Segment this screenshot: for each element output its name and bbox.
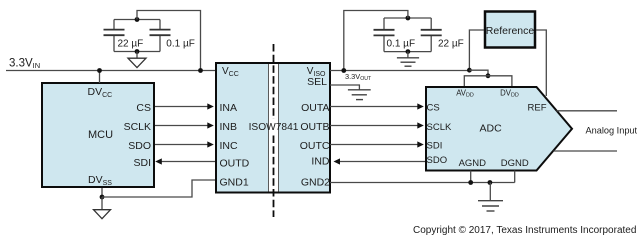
node junction VISO rail-caps [341, 68, 346, 73]
wire DVCC drop [99, 71, 101, 84]
node C1-C2 top junction [135, 17, 140, 22]
capacitor C1 22uF left leads [104, 20, 125, 52]
svg-text:Analog Input: Analog Input [586, 126, 638, 136]
svg-text:22 µF: 22 µF [438, 39, 464, 50]
wire MCU gnd lead [101, 197, 103, 210]
node junction ADC supply [486, 73, 491, 78]
wire right caps gnd lead [407, 52, 409, 58]
svg-text:SDO: SDO [427, 155, 448, 166]
node junction rail-caps [198, 68, 203, 73]
ground earth ADC [478, 201, 503, 211]
svg-text:INB: INB [220, 121, 238, 133]
node C3-C4 top junction [406, 16, 411, 21]
svg-text:SCLK: SCLK [427, 122, 452, 133]
wire VISO rail [330, 70, 469, 72]
Reference block [485, 12, 535, 48]
svg-text:SEL: SEL [307, 76, 327, 88]
ADC block [426, 87, 572, 171]
svg-text:Reference: Reference [486, 25, 535, 37]
svg-text:OUTC: OUTC [300, 140, 330, 152]
wire caps gnd lead [136, 52, 138, 59]
svg-text:OUTD: OUTD [220, 157, 250, 169]
node C3-C4 bottom junction [406, 49, 411, 54]
wire analog input top [557, 110, 618, 112]
wire right caps to VISO rail [344, 11, 408, 71]
wire ADC SDO to ISOW IND [338, 161, 425, 163]
wire MCU SCLK to ISOW INB [155, 125, 209, 127]
svg-text:ADC: ADC [480, 123, 503, 135]
svg-text:SDI: SDI [133, 157, 151, 169]
wire C1-C2 top connect [114, 19, 160, 21]
svg-text:DGND: DGND [501, 158, 529, 169]
svg-text:ISOW7841: ISOW7841 [249, 122, 299, 133]
svg-text:OUTA: OUTA [301, 102, 329, 114]
capacitor C4 22uF right leads [421, 18, 442, 52]
wire ADC AGND lead [470, 171, 472, 183]
node DVSS junction [100, 195, 105, 200]
wire SEL to gnd [330, 85, 359, 90]
node C1-C2 bottom junction [135, 49, 140, 54]
capacitor C2 0.1uF left leads [150, 20, 171, 52]
wire MCU DVSS lead [101, 188, 103, 197]
wire MCU SDO to ISOW INC [155, 144, 209, 146]
wire Reference left to VISO rail [469, 30, 484, 70]
wire C3-C4 top connect [384, 17, 431, 19]
svg-text:0.1 µF: 0.1 µF [387, 39, 416, 50]
wire ISOW OUTB to ADC SCLK [330, 125, 419, 127]
svg-text:SCLK: SCLK [124, 121, 151, 133]
wire GND2 to ADC grounds [330, 182, 515, 184]
svg-text:REF: REF [528, 103, 547, 114]
ground earth SEL [348, 90, 371, 100]
wire Reference right to ADC REF [536, 30, 546, 96]
wire ISOW OUTD to MCU SDI [161, 161, 215, 163]
svg-text:OUTB: OUTB [300, 121, 329, 133]
svg-text:GND2: GND2 [301, 177, 330, 189]
svg-text:Copyright © 2017, Texas Instru: Copyright © 2017, Texas Instruments Inco… [413, 225, 636, 236]
node junction gnd lead [488, 180, 493, 185]
MCU block [42, 83, 154, 187]
isolation barrier dashed line [273, 44, 275, 217]
wire ADC DGND lead [514, 171, 516, 183]
node junction AGND [468, 180, 473, 185]
wire ADC gnd lead [489, 183, 491, 201]
svg-text:INC: INC [220, 140, 239, 152]
ISOW7841 block [216, 63, 330, 193]
svg-text:INA: INA [220, 102, 238, 114]
wire MCU CS to ISOW INA [155, 106, 209, 108]
ground earth right caps [397, 58, 419, 66]
wire AVDD-DVDD connect [464, 76, 512, 87]
svg-text:CS: CS [427, 103, 440, 114]
svg-text:IND: IND [311, 156, 330, 168]
wire analog input bottom [554, 150, 618, 152]
wire 3.3VIN rail [6, 70, 216, 72]
wire VISO rail to ADC supplies [469, 70, 488, 76]
svg-text:22 µF: 22 µF [118, 39, 144, 50]
wire ISOW OUTC to ADC SDI [330, 144, 419, 146]
ground open triangle caps [128, 58, 146, 67]
svg-text:GND1: GND1 [220, 176, 249, 188]
svg-text:CS: CS [136, 102, 151, 114]
node junction VISO rail-Reference [467, 68, 472, 73]
svg-text:SDO: SDO [128, 140, 151, 152]
wire C3-C4 bottom connect [384, 51, 431, 53]
svg-text:SDI: SDI [427, 141, 443, 152]
wire C1-C2 bottom connect [114, 51, 160, 53]
wire ISOW OUTA to ADC CS [330, 106, 419, 108]
ground open triangle MCU [94, 210, 111, 219]
svg-text:AGND: AGND [459, 158, 487, 169]
node junction rail-DVCC [97, 68, 102, 73]
wire caps to rail [137, 11, 201, 71]
wire DVSS to GND1 [102, 180, 215, 197]
svg-text:0.1 µF: 0.1 µF [166, 39, 195, 50]
svg-text:MCU: MCU [88, 129, 113, 141]
capacitor C3 0.1uF right leads [374, 18, 395, 52]
